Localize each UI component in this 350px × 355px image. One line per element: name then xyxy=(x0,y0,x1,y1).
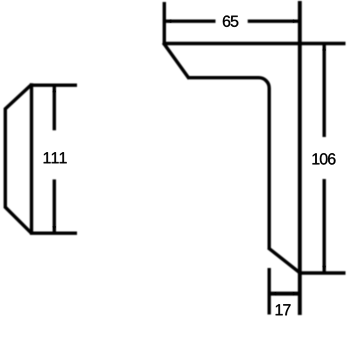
wire left extension line of 65 xyxy=(163,2,166,44)
arrowhead 65 right xyxy=(293,20,300,23)
label 65 xyxy=(223,16,238,27)
arrowhead 17 right xyxy=(293,292,300,295)
label 17 xyxy=(276,304,291,315)
dimension 65 line left segment xyxy=(164,20,215,23)
arrowhead 106 bottom xyxy=(323,266,326,273)
label 111 xyxy=(44,152,67,163)
wire bottom extension line of 111 xyxy=(30,231,77,234)
dimension 106 line upper segment xyxy=(323,44,326,138)
wire bottom slant of side view xyxy=(5,207,32,234)
wire left edge of side view xyxy=(4,109,7,208)
dimension 106 line lower segment xyxy=(323,179,326,273)
dimension 17 line xyxy=(269,292,300,296)
wire right edge + extensions for 65 and 17 xyxy=(298,1,302,315)
wire inner horizontal edge with rounded corner and inner vertical edge xyxy=(189,78,270,249)
arrowhead 111 top xyxy=(53,85,56,92)
main view outline (right shape) xyxy=(163,1,346,315)
wire top extension line of 111 xyxy=(30,83,77,86)
dimension 65 line right segment xyxy=(248,20,300,23)
dimension 111 line lower segment xyxy=(53,179,56,233)
side view outline (left shape) xyxy=(5,83,77,234)
wire top edge + 106 top extension xyxy=(163,42,346,45)
wire bottom extension line of 106 xyxy=(300,271,346,274)
arrowhead 65 left xyxy=(164,20,171,23)
dimension 111 line upper segment xyxy=(53,85,56,130)
label 106 xyxy=(313,153,336,164)
wire right edge of side view xyxy=(30,83,33,234)
arrowhead 106 top xyxy=(323,44,326,51)
arrowhead 17 left xyxy=(269,292,276,295)
wire top slant of side view xyxy=(5,84,32,109)
arrowhead 111 bottom xyxy=(53,226,56,233)
wire bottom diagonal of main view xyxy=(268,248,300,273)
wire left slant of main view xyxy=(163,43,189,79)
wire left extension line of 17 xyxy=(268,268,271,315)
